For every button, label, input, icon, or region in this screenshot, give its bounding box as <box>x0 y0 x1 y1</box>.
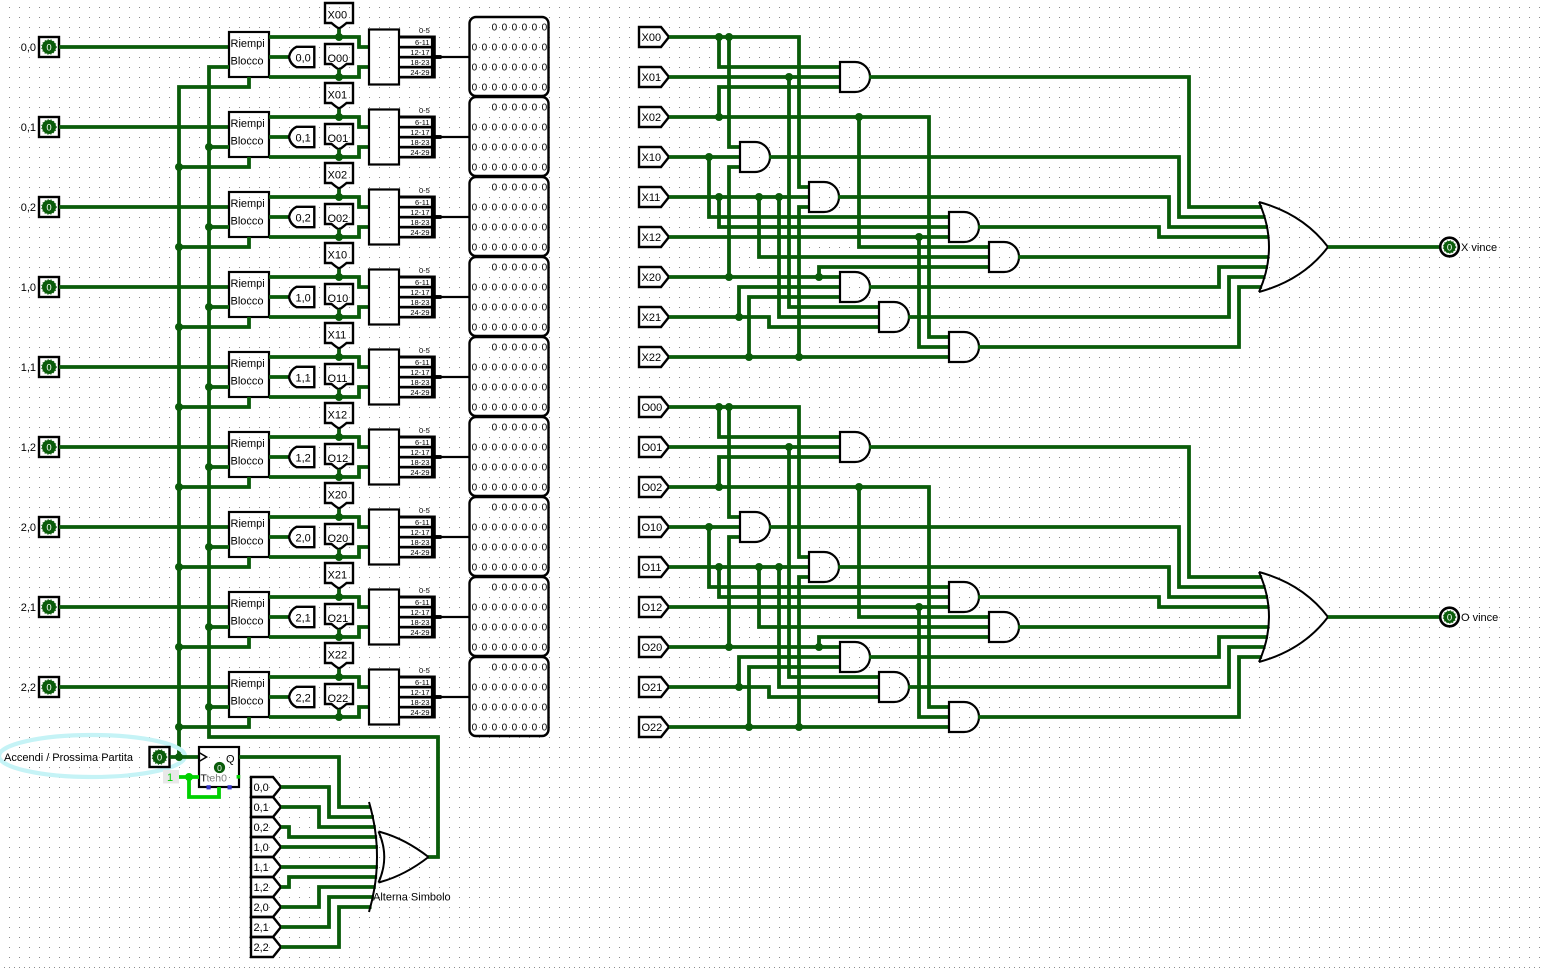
svg-text:00000000: 00000000 <box>472 283 552 294</box>
svg-text:00000000: 00000000 <box>472 603 552 614</box>
wire X11 to gate R1 <box>719 197 949 227</box>
wire O21 row <box>669 687 879 697</box>
wire X00 to gate C0 <box>729 37 740 147</box>
tunnel X21 <box>639 307 669 327</box>
svg-text:00000000: 00000000 <box>472 243 552 254</box>
wire to tunnel 1,0 <box>269 295 289 299</box>
svg-text:12-17: 12-17 <box>410 208 429 217</box>
subcircuit Riempi Blocco 0,2 <box>229 192 269 237</box>
tunnel O20 <box>325 524 353 550</box>
wire alterna input <box>209 305 229 309</box>
tunnel X12 <box>639 227 669 247</box>
wire O state 0,2 <box>269 227 369 237</box>
wire 30-bit bus to display <box>441 616 469 618</box>
wire 30-bit bus to display <box>441 136 469 138</box>
junction <box>745 723 753 731</box>
junction <box>205 143 213 151</box>
svg-text:18-23: 18-23 <box>410 138 429 147</box>
wire X state 1,0 <box>269 277 369 287</box>
tunnel X20 <box>639 267 669 287</box>
tunnel O12 <box>639 597 669 617</box>
subcircuit display encoder 0,1 <box>369 110 399 165</box>
wire X22 to gate D1 <box>799 207 809 357</box>
svg-text:00000000: 00000000 <box>472 163 552 174</box>
svg-text:18-23: 18-23 <box>410 458 429 467</box>
svg-text:Blocco: Blocco <box>231 456 264 468</box>
wire 30-bit bus to display <box>441 376 469 378</box>
junction <box>185 773 193 781</box>
svg-text:18-23: 18-23 <box>410 378 429 387</box>
svg-text:0: 0 <box>46 602 51 613</box>
tunnel X10 <box>325 243 353 269</box>
wire gate R2 out <box>869 637 1268 657</box>
wire accendi to clock <box>170 755 200 759</box>
wire gate R0 out <box>869 447 1262 577</box>
svg-text:Blocco: Blocco <box>231 536 264 548</box>
svg-text:Blocco: Blocco <box>231 376 264 388</box>
input pin 0,1 <box>39 117 59 137</box>
svg-text:24-29: 24-29 <box>410 308 429 317</box>
tunnel O22 <box>639 717 669 737</box>
tunnel X02 <box>639 107 669 127</box>
junction <box>335 633 343 641</box>
svg-text:1,0: 1,0 <box>21 282 36 294</box>
AND gate X col0 <box>740 142 770 172</box>
output pin display 1,0 (30-bit) <box>470 257 549 336</box>
svg-text:6-11: 6-11 <box>415 518 429 527</box>
output pin X vince <box>1440 238 1459 257</box>
junction <box>175 403 183 411</box>
svg-text:0-5: 0-5 <box>419 666 430 675</box>
splitter bits 0-29 0,2 <box>399 196 433 199</box>
wire gate C0 out <box>769 527 1266 587</box>
wire X12 to gate C2 <box>919 237 949 347</box>
svg-text:6-11: 6-11 <box>415 598 429 607</box>
svg-text:Alterna Simbolo: Alterna Simbolo <box>373 892 451 904</box>
tunnel 1,0 <box>289 287 314 307</box>
subcircuit Riempi Blocco 0,0 <box>229 32 269 77</box>
svg-text:X10: X10 <box>328 250 348 262</box>
wire O11 row <box>669 565 809 569</box>
svg-text:0-5: 0-5 <box>419 586 430 595</box>
svg-text:00000000: 00000000 <box>472 523 552 534</box>
wire input 1,0 to Riempi Blocco <box>59 285 229 289</box>
svg-text:00000000: 00000000 <box>472 63 552 74</box>
output pin display 2,2 (30-bit) <box>470 657 549 736</box>
wire X00 row + to gate D1 <box>669 37 809 187</box>
wire gate D1 out <box>838 567 1268 597</box>
svg-text:0-5: 0-5 <box>419 26 430 35</box>
junction <box>705 153 713 161</box>
AND gate O col0 <box>740 512 770 542</box>
T flip-flop teh0 <box>199 747 239 787</box>
wire gate R0 out <box>869 77 1262 207</box>
wire accendi feed + vertical bus <box>179 77 249 757</box>
wire 30-bit bus to display <box>441 456 469 458</box>
svg-text:00000000: 00000000 <box>472 123 552 134</box>
tunnel X22 <box>639 347 669 367</box>
wire O state 1,1 <box>269 387 369 397</box>
svg-text:Accendi / Prossima Partita: Accendi / Prossima Partita <box>4 752 134 764</box>
wire gate C0 out <box>769 157 1266 217</box>
tunnel 0,1 <box>289 127 314 147</box>
svg-text:X22: X22 <box>328 650 348 662</box>
input pin Accendi <box>150 747 170 767</box>
wire X20 to gate C0 <box>729 167 740 277</box>
junction <box>205 303 213 311</box>
svg-text:X10: X10 <box>642 152 662 164</box>
svg-text:12-17: 12-17 <box>410 48 429 57</box>
svg-text:O20: O20 <box>328 533 349 545</box>
AND gate X diag2 <box>989 242 1019 272</box>
wire 30-bit bus to display <box>441 216 469 218</box>
tunnel O02 <box>639 477 669 497</box>
tunnel O20 <box>639 637 669 657</box>
AND gate X row1 <box>949 212 979 242</box>
splitter bits 0-29 1,1 <box>399 356 433 359</box>
splitter bits 0-29 0,1 <box>399 116 433 119</box>
svg-text:O10: O10 <box>642 522 663 534</box>
svg-text:00000000: 00000000 <box>472 83 552 94</box>
OR gate Alterna Simbolo <box>369 802 377 912</box>
svg-text:0: 0 <box>46 282 51 293</box>
constant 1 <box>163 770 179 784</box>
svg-text:12-17: 12-17 <box>410 288 429 297</box>
wire 30-bit bus to display <box>441 296 469 298</box>
wire tunnel stub <box>337 109 341 117</box>
wire O state 0,0 <box>269 67 369 77</box>
wire gate R1 out <box>978 227 1270 237</box>
input pin 0,2 <box>39 197 59 217</box>
wire O state 0,1 <box>269 147 369 157</box>
wire X10 row <box>669 155 740 159</box>
svg-text:O00: O00 <box>328 53 349 65</box>
svg-text:6-11: 6-11 <box>415 198 429 207</box>
AND gate O row2 <box>840 642 870 672</box>
wire alterna OR output to bus and row 0,0 input <box>209 67 438 857</box>
tunnel X12 <box>325 403 353 429</box>
wire X01 row <box>669 75 840 79</box>
wire O22 to gate D1 <box>799 577 809 727</box>
svg-text:Blocco: Blocco <box>231 296 264 308</box>
svg-text:00000000: 00000000 <box>472 303 552 314</box>
wire O00 to gate R0 <box>719 407 840 437</box>
junction <box>335 273 343 281</box>
tunnel O01 <box>325 124 353 150</box>
svg-text:12-17: 12-17 <box>410 688 429 697</box>
svg-text:O12: O12 <box>642 602 663 614</box>
junction <box>855 113 863 121</box>
subcircuit display encoder 2,1 <box>369 590 399 645</box>
svg-text:0,2: 0,2 <box>254 822 269 834</box>
wire tunnel stub <box>337 429 341 437</box>
junction <box>335 433 343 441</box>
svg-text:0-5: 0-5 <box>419 506 430 515</box>
svg-text:6-11: 6-11 <box>415 278 429 287</box>
svg-text:00000000: 00000000 <box>472 483 552 494</box>
svg-text:00000000: 00000000 <box>472 643 552 654</box>
subcircuit Riempi Blocco 2,0 <box>229 512 269 557</box>
wire O22 row <box>669 725 949 729</box>
svg-text:O01: O01 <box>328 133 349 145</box>
junction <box>335 313 343 321</box>
tunnel 0,2 (alterna) <box>251 817 281 837</box>
tunnel O11 <box>639 557 669 577</box>
svg-text:O11: O11 <box>642 562 662 574</box>
splitter bits 0-29 2,1 <box>399 596 433 599</box>
output pin display 2,1 (30-bit) <box>470 577 549 656</box>
junction <box>795 353 803 361</box>
svg-text:2,1: 2,1 <box>254 922 269 934</box>
wire accendi feed <box>179 157 249 167</box>
tunnel O02 <box>325 204 353 230</box>
wire O20 to gate D2 <box>819 637 989 647</box>
tunnel X00 <box>325 3 353 29</box>
wire input 2,1 to Riempi Blocco <box>59 605 229 609</box>
junction <box>335 513 343 521</box>
svg-text:18-23: 18-23 <box>410 58 429 67</box>
junction <box>335 233 343 241</box>
junction <box>335 193 343 201</box>
junction <box>915 233 923 241</box>
wire X02 to gate D2 <box>859 117 989 247</box>
AND gate O row0 <box>840 432 870 462</box>
wire to tunnel 0,0 <box>269 55 289 59</box>
wire X state 0,0 <box>269 37 369 47</box>
junction <box>715 563 723 571</box>
svg-text:Riempi: Riempi <box>231 678 265 690</box>
subcircuit Riempi Blocco 1,0 <box>229 272 269 317</box>
wire gate D2 out <box>1018 625 1270 629</box>
svg-text:0,1: 0,1 <box>296 133 311 145</box>
junction <box>335 153 343 161</box>
svg-text:000000: 000000 <box>492 583 552 594</box>
wire to tunnel 2,2 <box>269 695 289 699</box>
svg-text:0: 0 <box>46 42 51 53</box>
tunnel O00 <box>639 397 669 417</box>
wire O state 1,0 <box>269 307 369 317</box>
tunnel 1,0 (alterna) <box>251 837 281 857</box>
wire gate R2 out <box>869 267 1268 287</box>
svg-text:000000: 000000 <box>492 343 552 354</box>
svg-text:0: 0 <box>46 522 51 533</box>
junction <box>815 273 823 281</box>
svg-text:X12: X12 <box>642 232 662 244</box>
wire O22 to gate R2 <box>749 667 840 727</box>
tunnel 2,1 <box>289 607 314 627</box>
svg-text:0-5: 0-5 <box>419 346 430 355</box>
junction <box>175 163 183 171</box>
wire Q to alterna OR <box>239 757 371 807</box>
junction <box>205 383 213 391</box>
junction <box>205 223 213 231</box>
junction <box>725 33 733 41</box>
wire X01 to gate C1 <box>789 77 879 307</box>
svg-text:0: 0 <box>46 362 51 373</box>
svg-text:O02: O02 <box>328 213 349 225</box>
input pin 1,0 <box>39 277 59 297</box>
wire alterna input <box>209 625 229 629</box>
wire O11 to gate D2 <box>759 567 989 627</box>
junction <box>715 113 723 121</box>
wire alterna input <box>209 385 229 389</box>
svg-text:O21: O21 <box>642 682 663 694</box>
wire 0,1 to alterna OR <box>281 807 376 827</box>
wire to tunnel 1,1 <box>269 375 289 379</box>
svg-text:0: 0 <box>217 763 222 773</box>
tunnel 1,2 (alterna) <box>251 877 281 897</box>
tunnel X21 <box>325 563 353 589</box>
subcircuit display encoder 1,1 <box>369 350 399 405</box>
wire 0,0 to alterna OR <box>281 787 374 817</box>
tunnel O21 <box>325 604 353 630</box>
junction <box>335 593 343 601</box>
wire accendi feed <box>179 717 249 727</box>
svg-text:X21: X21 <box>328 570 348 582</box>
wire O10 row <box>669 525 740 529</box>
svg-text:12-17: 12-17 <box>410 448 429 457</box>
subcircuit Riempi Blocco 0,1 <box>229 112 269 157</box>
svg-text:0: 0 <box>46 202 51 213</box>
svg-text:24-29: 24-29 <box>410 148 429 157</box>
tunnel 0,2 <box>289 207 314 227</box>
junction <box>735 313 743 321</box>
svg-text:1,2: 1,2 <box>254 882 269 894</box>
tunnel 0,1 (alterna) <box>251 797 281 817</box>
tunnel X10 <box>639 147 669 167</box>
svg-text:2,2: 2,2 <box>254 942 269 954</box>
tunnel O12 <box>325 444 353 470</box>
wire tunnel stub <box>337 69 341 77</box>
svg-text:6-11: 6-11 <box>415 678 429 687</box>
subcircuit display encoder 0,0 <box>369 30 399 85</box>
wire tunnel stub <box>337 309 341 317</box>
wire alterna input <box>209 705 229 709</box>
junction <box>815 643 823 651</box>
wire tunnel stub <box>337 189 341 197</box>
svg-text:2,1: 2,1 <box>21 602 36 614</box>
svg-text:00000000: 00000000 <box>472 323 552 334</box>
wire to tunnel 0,1 <box>269 135 289 139</box>
junction <box>725 273 733 281</box>
tunnel X00 <box>639 27 669 47</box>
svg-text:2,2: 2,2 <box>21 682 36 694</box>
svg-text:18-23: 18-23 <box>410 298 429 307</box>
svg-text:000000: 000000 <box>492 423 552 434</box>
tunnel 2,0 <box>289 527 314 547</box>
svg-text:00000000: 00000000 <box>472 703 552 714</box>
subcircuit Riempi Blocco 2,2 <box>229 672 269 717</box>
svg-text:O11: O11 <box>328 373 348 385</box>
svg-text:X02: X02 <box>642 112 662 124</box>
input pin 2,2 <box>39 677 59 697</box>
svg-text:00000000: 00000000 <box>472 383 552 394</box>
svg-text:0,2: 0,2 <box>296 213 311 225</box>
wire tunnel stub <box>337 629 341 637</box>
wire to tunnel 2,1 <box>269 615 289 619</box>
svg-text:Riempi: Riempi <box>231 278 265 290</box>
svg-text:0: 0 <box>46 682 51 693</box>
output pin display 1,2 (30-bit) <box>470 417 549 496</box>
AND gate X col2 <box>949 332 979 362</box>
wire O12 to gate C2 <box>919 607 949 717</box>
wire tunnel stub <box>337 29 341 37</box>
wire gate C1 out <box>908 277 1266 317</box>
wire X state 0,2 <box>269 197 369 207</box>
junction <box>335 353 343 361</box>
subcircuit Riempi Blocco 1,1 <box>229 352 269 397</box>
wire O02 to gate D2 <box>859 487 989 617</box>
wire alterna input <box>209 145 229 149</box>
svg-text:00000000: 00000000 <box>472 203 552 214</box>
svg-text:2,1: 2,1 <box>296 613 311 625</box>
tunnel O00 <box>325 44 353 70</box>
svg-text:X02: X02 <box>328 170 348 182</box>
svg-text:00000000: 00000000 <box>472 143 552 154</box>
wire O00 to gate C0 <box>729 407 740 517</box>
svg-text:X21: X21 <box>642 312 662 324</box>
AND gate X diag1 <box>809 182 839 212</box>
tunnel X11 <box>325 323 353 349</box>
AND gate O col1 <box>879 672 909 702</box>
wire 1,1 to alterna OR <box>281 865 378 869</box>
svg-text:6-11: 6-11 <box>415 438 429 447</box>
splitter bits 0-29 2,0 <box>399 516 433 519</box>
input pin 0,0 <box>39 37 59 57</box>
svg-text:O10: O10 <box>328 293 349 305</box>
input pin 1,1 <box>39 357 59 377</box>
wire input 0,2 to Riempi Blocco <box>59 205 229 209</box>
svg-text:0: 0 <box>46 122 51 133</box>
wire tunnel stub <box>337 229 341 237</box>
wire 30-bit bus to display <box>441 536 469 538</box>
svg-text:00000000: 00000000 <box>472 223 552 234</box>
svg-text:O22: O22 <box>642 722 663 734</box>
splitter bits 0-29 1,2 <box>399 436 433 439</box>
junction <box>175 563 183 571</box>
splitter bits 0-29 2,2 <box>399 676 433 679</box>
svg-text:0: 0 <box>1447 242 1452 253</box>
wire X state 2,2 <box>269 677 369 687</box>
wire O20 to gate C0 <box>729 537 740 647</box>
junction <box>175 243 183 251</box>
svg-text:Blocco: Blocco <box>231 216 264 228</box>
junction <box>775 193 783 201</box>
wire constant loop <box>189 777 219 797</box>
junction <box>205 703 213 711</box>
junction <box>725 403 733 411</box>
svg-text:00000000: 00000000 <box>472 43 552 54</box>
svg-text:O00: O00 <box>642 402 663 414</box>
junction <box>855 483 863 491</box>
wire 1,0 to alterna OR <box>281 845 378 849</box>
wire tunnel stub <box>337 469 341 477</box>
wire O02 to gate R0 <box>719 457 840 487</box>
wire tunnel stub <box>337 389 341 397</box>
tunnel O10 <box>325 284 353 310</box>
wire accendi feed <box>179 397 249 407</box>
svg-text:000000: 000000 <box>492 503 552 514</box>
input pin 2,1 <box>39 597 59 617</box>
wire alterna input <box>209 465 229 469</box>
svg-text:00000000: 00000000 <box>472 623 552 634</box>
wire O state 1,2 <box>269 467 369 477</box>
svg-text:1,2: 1,2 <box>296 453 311 465</box>
svg-text:X11: X11 <box>328 330 347 342</box>
wire X11 to gate C1 <box>779 197 879 317</box>
AND gate O col2 <box>949 702 979 732</box>
wire accendi feed <box>179 237 249 247</box>
